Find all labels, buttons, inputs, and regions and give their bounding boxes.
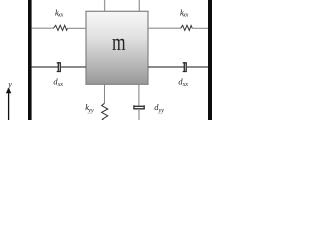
svg-text:xx: xx [182, 82, 189, 88]
svg-text:yy: yy [158, 108, 165, 114]
svg-text:y: y [7, 80, 12, 89]
svg-text:m: m [112, 29, 126, 56]
svg-text:xx: xx [182, 12, 189, 18]
svg-text:yy: yy [87, 108, 94, 114]
svg-text:xx: xx [57, 12, 64, 18]
svg-text:xx: xx [57, 82, 64, 88]
